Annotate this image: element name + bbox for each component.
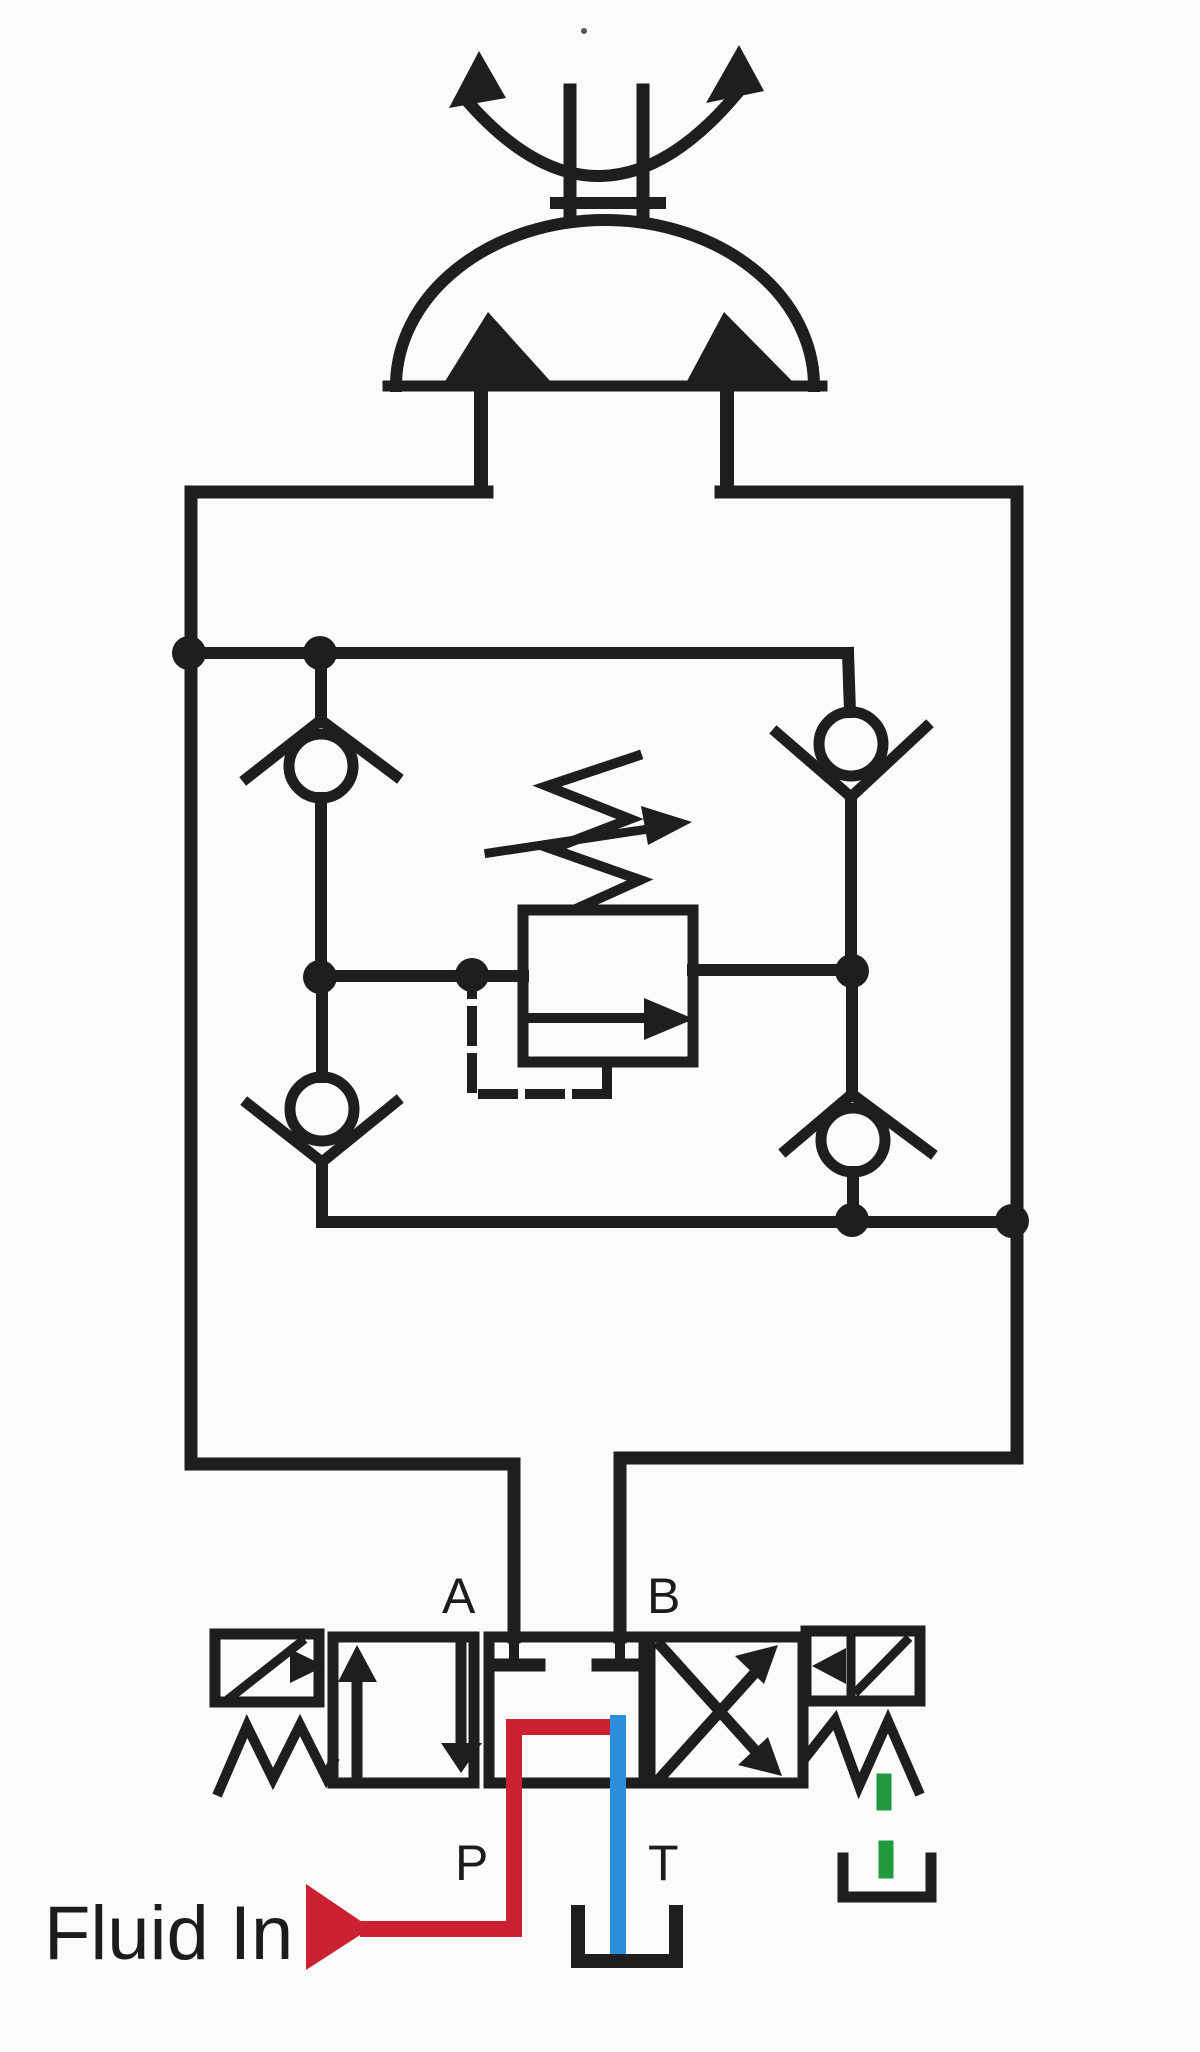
drain tank symbol [843,1858,931,1897]
relief valve RV1 pilot stub [602,1062,612,1092]
node bottom rail / outer right edge [995,1204,1029,1238]
wire T blue tank line [610,1723,626,1960]
solenoid S2 right [806,1631,920,1701]
motor M1 flow arrow left [444,312,552,383]
node pilot tap [455,958,489,992]
valve V1 position 1 box [333,1637,474,1783]
wire right branch to bottom rail [847,1172,859,1222]
svg-text:Fluid In: Fluid In [44,1891,293,1976]
wire relief valve right line [693,964,852,976]
wire left branch to bottom rail [322,1162,324,1222]
motor M1 flow arrow right [686,312,794,383]
motor M1 dome [396,220,814,386]
wire motor right leg [720,390,734,490]
valve V1 pos1 down arrow [456,1640,467,1740]
check valve CV3 bottom-left [248,1077,396,1162]
motor M1 shaft [564,90,577,216]
node bridge top left [303,636,337,670]
svg-text:A: A [442,1568,476,1624]
valve V1 pos3 cross arrow 2 [661,1646,752,1747]
wire relief valve left line [321,970,523,982]
svg-text:P: P [455,1835,488,1891]
check valve CV1 top-left [247,720,396,798]
check valve CV2 top-right [777,712,926,797]
wire right branch lower [846,971,858,1096]
solenoid S1 left [215,1634,319,1702]
valve V1 position 3 box [650,1637,803,1783]
wire right branch middle [845,797,857,973]
spring left [219,1725,333,1791]
valve V1 pos3 cross arrow 1 [661,1676,752,1777]
valve V1 pos1 up arrow [352,1682,363,1782]
motor M1 rotation arrowhead left [449,51,506,108]
tank T symbol [578,1912,676,1961]
valve V1 center B port stub [615,1637,625,1660]
relief valve RV1 spring [547,756,640,908]
relief valve RV1 flow arrow [530,1013,650,1023]
node mid-left [303,960,337,994]
wire bridge bottom rail [324,1216,1017,1228]
wire left branch upper [315,653,327,722]
valve V1 center box [489,1637,644,1783]
valve V1 center A port stub [509,1637,519,1660]
green drain dashes [877,1781,892,1803]
svg-text:T: T [648,1835,679,1891]
wire left branch lower [316,977,328,1077]
node mid-right [835,954,869,988]
wire outer loop right: B up to motor [620,492,1017,1637]
wire motor left leg [474,390,488,490]
node at left edge [172,636,206,670]
motor M1 baseline [388,381,822,392]
wire P red pressure line [368,1727,616,1929]
relief valve RV1 adjustment arrow [489,828,655,853]
wire bridge top rail [191,647,848,659]
wire outer loop left: A up to motor [191,492,514,1637]
wire bridge right branch upper [848,653,850,712]
motor M1 rotation arrowhead right [706,45,764,103]
relief valve RV1 pilot dashed line [472,990,607,1094]
svg-text:B: B [647,1568,680,1624]
node bottom rail / right branch [835,1203,869,1237]
spring right [806,1720,918,1790]
relief valve RV1 body [523,910,693,1062]
check valve CV4 bottom-right [786,1094,930,1172]
Fluid In red arrow [306,1884,371,1970]
motor M1 rotation arc [468,96,735,176]
wire left branch middle [315,798,327,978]
